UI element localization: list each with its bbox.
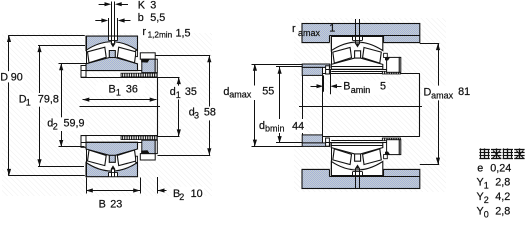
svg-text:r: r [142,26,146,38]
svg-text:bmin: bmin [265,124,285,134]
svg-text:2: 2 [179,192,184,202]
svg-text:B: B [343,81,350,93]
svg-text:Y: Y [477,191,484,203]
svg-text:3: 3 [194,111,199,121]
svg-text:1: 1 [329,22,335,34]
svg-text:59,9: 59,9 [64,117,85,129]
svg-text:1: 1 [116,88,121,98]
svg-text:90: 90 [11,71,23,83]
svg-text:K: K [138,0,146,12]
svg-text:81: 81 [458,86,470,98]
svg-text:36: 36 [126,84,138,96]
svg-text:2,8: 2,8 [495,206,510,218]
svg-text:2: 2 [53,121,58,131]
svg-text:44: 44 [292,120,304,132]
svg-text:58: 58 [204,107,216,119]
svg-text:55: 55 [262,85,274,97]
svg-text:1,2min: 1,2min [148,31,173,40]
svg-text:5: 5 [380,80,386,92]
svg-text:2,8: 2,8 [495,177,510,189]
svg-text:amin: amin [351,85,371,95]
svg-text:amax: amax [229,90,252,100]
svg-text:D: D [0,71,8,83]
svg-text:79,8: 79,8 [38,93,59,105]
svg-text:0: 0 [484,210,489,220]
svg-text:B: B [109,84,116,96]
svg-text:2: 2 [484,195,489,205]
svg-text:4,2: 4,2 [495,191,510,203]
svg-text:1,5: 1,5 [176,27,191,39]
svg-text:35: 35 [185,86,197,98]
svg-text:1: 1 [176,90,181,100]
svg-text:1: 1 [26,97,31,107]
svg-text:e: e [477,163,483,175]
svg-text:1: 1 [484,181,489,191]
svg-text:10: 10 [191,188,203,200]
svg-text:23: 23 [110,198,122,210]
svg-text:0,24: 0,24 [490,163,511,175]
svg-text:b: b [138,12,144,24]
svg-text:B: B [99,198,106,210]
svg-text:r: r [292,23,296,35]
svg-text:3: 3 [150,0,156,12]
svg-text:Y: Y [477,206,484,218]
svg-text:amax: amax [431,91,454,101]
svg-text:Y: Y [477,177,484,189]
svg-text:amax: amax [298,28,321,38]
svg-text:5,5: 5,5 [150,12,165,24]
